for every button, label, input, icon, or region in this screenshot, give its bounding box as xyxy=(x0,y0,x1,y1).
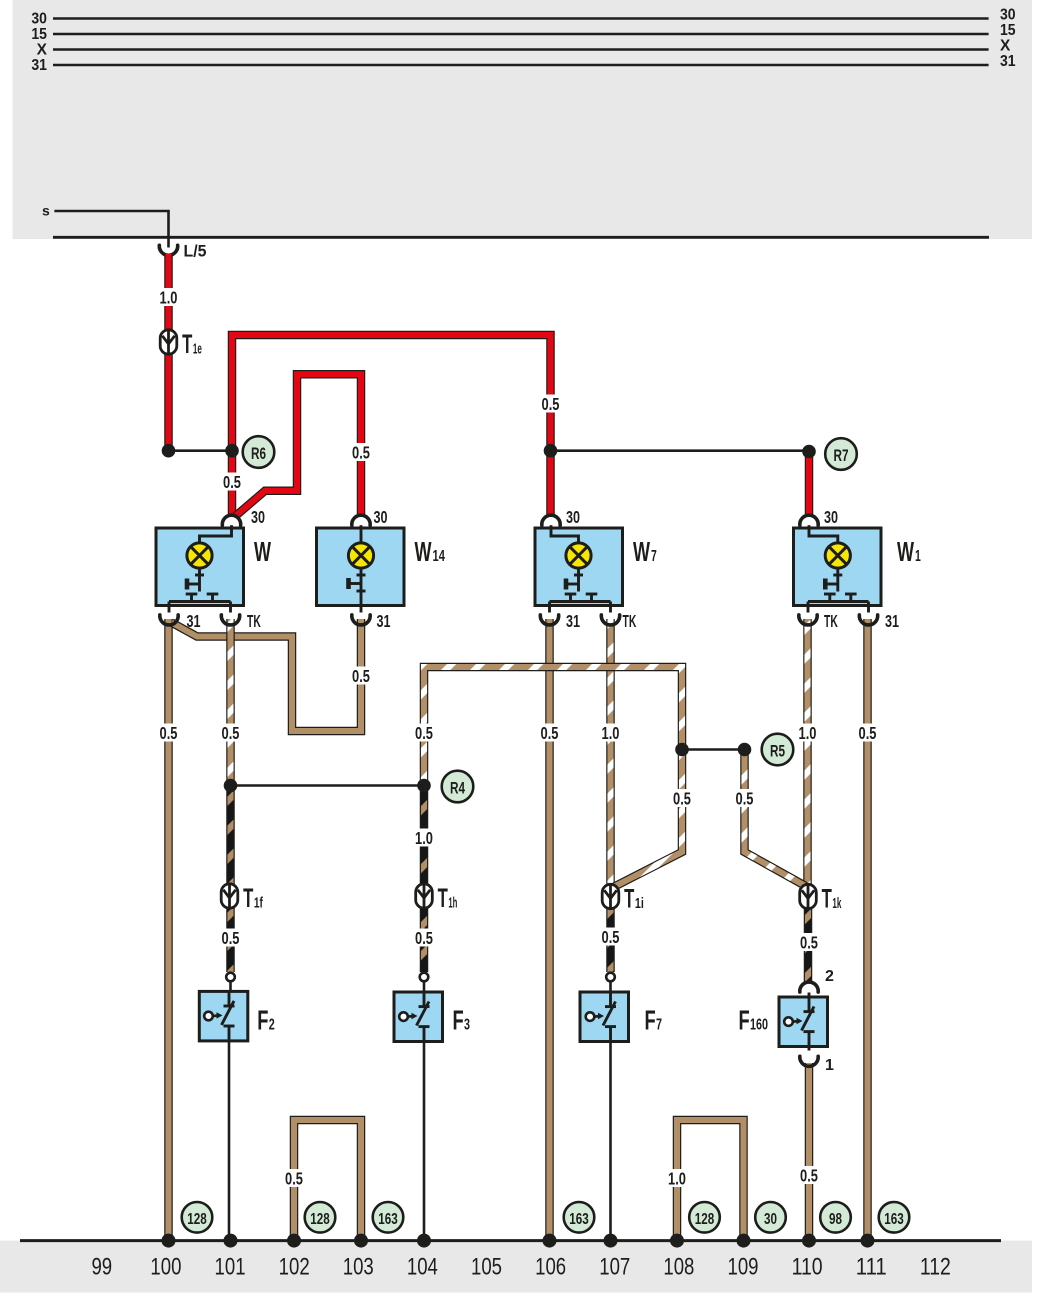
svg-text:31: 31 xyxy=(885,611,899,631)
svg-text:T: T xyxy=(624,884,635,914)
svg-text:T: T xyxy=(822,884,833,914)
svg-text:128: 128 xyxy=(310,1211,330,1228)
svg-text:128: 128 xyxy=(187,1211,207,1228)
svg-text:TK: TK xyxy=(247,611,261,631)
svg-text:0.5: 0.5 xyxy=(415,928,433,948)
svg-text:111: 111 xyxy=(856,1253,887,1280)
svg-text:1.0: 1.0 xyxy=(160,287,178,307)
svg-text:7: 7 xyxy=(656,1017,662,1034)
svg-text:T: T xyxy=(243,883,254,913)
svg-text:2: 2 xyxy=(825,968,834,985)
svg-text:R7: R7 xyxy=(834,446,849,465)
svg-text:0.5: 0.5 xyxy=(222,723,240,743)
svg-text:0.5: 0.5 xyxy=(673,788,691,808)
svg-text:108: 108 xyxy=(663,1253,694,1280)
svg-text:1f: 1f xyxy=(254,895,263,911)
svg-text:30: 30 xyxy=(764,1211,777,1228)
svg-text:1k: 1k xyxy=(832,896,842,912)
svg-text:1e: 1e xyxy=(193,341,202,357)
svg-text:1h: 1h xyxy=(448,895,457,911)
svg-text:R5: R5 xyxy=(770,742,785,761)
svg-text:0.5: 0.5 xyxy=(800,1165,818,1185)
svg-text:30: 30 xyxy=(1000,7,1016,24)
svg-text:128: 128 xyxy=(695,1211,715,1228)
svg-text:99: 99 xyxy=(91,1253,112,1280)
svg-text:30: 30 xyxy=(374,507,388,527)
svg-text:98: 98 xyxy=(829,1211,842,1228)
svg-text:107: 107 xyxy=(599,1253,630,1280)
svg-text:160: 160 xyxy=(750,1017,768,1034)
svg-text:T: T xyxy=(438,883,449,913)
svg-text:31: 31 xyxy=(187,611,201,631)
svg-text:1.0: 1.0 xyxy=(799,723,817,743)
svg-text:31: 31 xyxy=(377,611,391,631)
svg-text:163: 163 xyxy=(884,1211,904,1228)
svg-text:0.5: 0.5 xyxy=(859,723,877,743)
svg-text:0.5: 0.5 xyxy=(285,1168,303,1188)
svg-text:31: 31 xyxy=(1000,53,1016,70)
svg-text:F: F xyxy=(453,1005,464,1036)
svg-text:103: 103 xyxy=(343,1253,374,1280)
svg-text:0.5: 0.5 xyxy=(160,723,178,743)
svg-text:102: 102 xyxy=(279,1253,310,1280)
svg-text:1: 1 xyxy=(915,548,921,565)
svg-text:30: 30 xyxy=(824,507,838,527)
svg-text:L/5: L/5 xyxy=(184,243,207,261)
svg-text:1i: 1i xyxy=(635,896,644,912)
svg-text:R4: R4 xyxy=(450,779,465,798)
svg-text:1.0: 1.0 xyxy=(668,1168,686,1188)
svg-text:0.5: 0.5 xyxy=(542,394,560,414)
svg-text:1.0: 1.0 xyxy=(602,723,620,743)
svg-text:s: s xyxy=(42,203,50,219)
svg-text:110: 110 xyxy=(792,1253,823,1280)
svg-text:0.5: 0.5 xyxy=(223,472,241,492)
svg-text:100: 100 xyxy=(150,1253,181,1280)
svg-text:W: W xyxy=(897,535,914,567)
svg-text:0.5: 0.5 xyxy=(736,788,754,808)
svg-text:1: 1 xyxy=(825,1057,834,1074)
svg-text:15: 15 xyxy=(1000,22,1016,39)
svg-text:101: 101 xyxy=(215,1253,246,1280)
svg-text:15: 15 xyxy=(31,26,47,43)
svg-text:TK: TK xyxy=(623,611,637,631)
svg-text:0.5: 0.5 xyxy=(800,932,818,952)
svg-text:14: 14 xyxy=(433,548,445,565)
svg-text:F: F xyxy=(257,1005,268,1036)
svg-text:163: 163 xyxy=(378,1211,398,1228)
svg-text:F: F xyxy=(739,1005,750,1036)
svg-text:30: 30 xyxy=(251,507,265,527)
svg-text:0.5: 0.5 xyxy=(222,928,240,948)
svg-text:W: W xyxy=(415,535,432,567)
svg-text:X: X xyxy=(1000,38,1011,55)
svg-text:163: 163 xyxy=(569,1211,589,1228)
svg-text:105: 105 xyxy=(471,1253,502,1280)
svg-text:0.5: 0.5 xyxy=(415,723,433,743)
svg-text:0.5: 0.5 xyxy=(352,442,370,462)
svg-text:30: 30 xyxy=(31,10,47,27)
svg-text:109: 109 xyxy=(728,1253,759,1280)
svg-text:0.5: 0.5 xyxy=(352,666,370,686)
svg-text:31: 31 xyxy=(566,611,580,631)
svg-text:106: 106 xyxy=(535,1253,566,1280)
svg-text:31: 31 xyxy=(31,57,47,74)
svg-text:112: 112 xyxy=(920,1253,951,1280)
svg-text:7: 7 xyxy=(651,548,657,565)
svg-text:1.0: 1.0 xyxy=(415,828,433,848)
svg-text:3: 3 xyxy=(464,1017,470,1034)
svg-text:2: 2 xyxy=(269,1017,275,1034)
svg-text:TK: TK xyxy=(824,611,838,631)
svg-text:30: 30 xyxy=(566,507,580,527)
svg-text:T: T xyxy=(182,329,193,359)
svg-text:W: W xyxy=(633,535,650,567)
svg-text:104: 104 xyxy=(407,1253,438,1280)
svg-text:0.5: 0.5 xyxy=(602,927,620,947)
svg-text:W: W xyxy=(254,535,271,567)
svg-text:F: F xyxy=(645,1005,656,1036)
svg-text:R6: R6 xyxy=(251,444,266,463)
svg-text:0.5: 0.5 xyxy=(541,723,559,743)
svg-text:X: X xyxy=(37,41,48,58)
